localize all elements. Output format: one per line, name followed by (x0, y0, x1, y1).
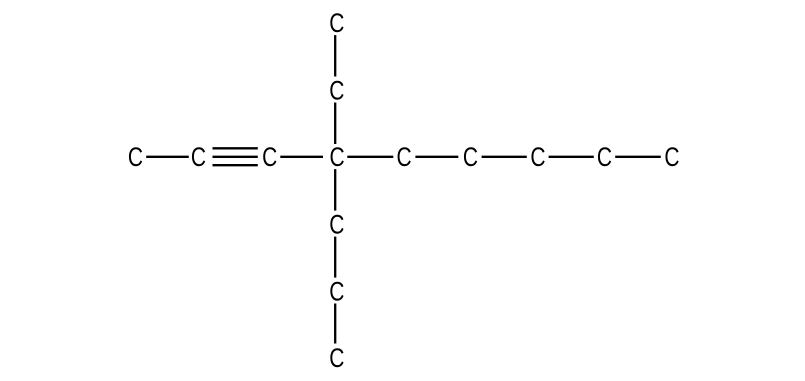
wire bond C4-C5 (347, 156, 393, 158)
atom C4 (central quaternary carbon) (330, 143, 345, 173)
svg-text:C: C (397, 143, 412, 173)
atom C10 (top of upper branch) (329, 8, 344, 38)
svg-text:C: C (128, 143, 143, 173)
atom C5 (397, 143, 412, 173)
svg-text:C: C (530, 143, 545, 173)
triple bond C2-C3 (213, 148, 258, 165)
svg-text:C: C (597, 143, 612, 173)
atom C3 (262, 143, 277, 173)
wire bond C6-C7 (482, 156, 527, 158)
wire bond C7-C8 (549, 156, 594, 158)
svg-text:C: C (664, 143, 679, 173)
atom C2 (191, 143, 206, 173)
atom C13 (lower branch) (329, 277, 344, 307)
svg-text:C: C (463, 143, 478, 173)
svg-text:C: C (329, 8, 344, 38)
atom C14 (bottom of lower branch) (329, 344, 344, 374)
atom C7 (530, 143, 545, 173)
atom C1 (leftmost) (128, 143, 143, 173)
wire bond C3-C4 (280, 156, 323, 158)
wire bond C1-C2 (146, 156, 189, 158)
svg-text:C: C (191, 143, 206, 173)
wire bond C8-C9 (615, 156, 661, 158)
atom C11 (upper branch, adjacent to C4) (329, 76, 344, 106)
svg-text:C: C (329, 210, 344, 240)
wire bond C10-C11 (334, 35, 336, 76)
atom C6 (463, 143, 478, 173)
wire bond C13-C14 (334, 304, 336, 344)
svg-text:C: C (262, 143, 277, 173)
atom C12 (lower branch, adjacent to C4) (329, 210, 344, 240)
wire bond C12-C13 (334, 237, 336, 278)
wire bond C5-C6 (415, 156, 458, 158)
wire bond C11-C4 (334, 103, 336, 145)
atom C9 (rightmost) (664, 143, 679, 173)
svg-text:C: C (329, 76, 344, 106)
wire bond C4-C12 (334, 169, 336, 211)
svg-text:C: C (329, 277, 344, 307)
atom C8 (597, 143, 612, 173)
svg-text:C: C (329, 344, 344, 374)
svg-text:C: C (330, 143, 345, 173)
